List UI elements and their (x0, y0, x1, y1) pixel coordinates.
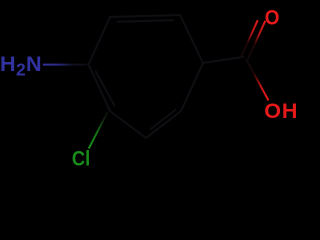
svg-text:O: O (265, 6, 280, 29)
svg-text:Cl: Cl (72, 147, 90, 170)
svg-text:OH: OH (264, 99, 298, 123)
